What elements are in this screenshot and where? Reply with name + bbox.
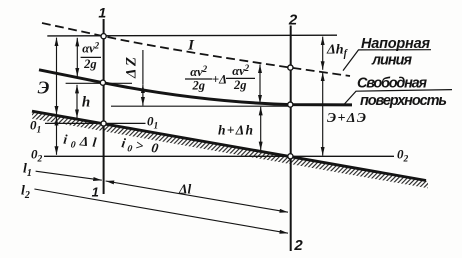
horizontal energy reference line <box>47 34 337 37</box>
channel bottom hatching <box>32 111 428 188</box>
fraction bar b section 2 <box>226 77 255 79</box>
svg-text:Δl: Δl <box>178 182 191 197</box>
measure depth h <box>76 85 78 118</box>
dimension line l2 <box>34 189 288 233</box>
svg-text:I: I <box>187 38 195 54</box>
fraction bar a section 2 <box>185 78 212 80</box>
node at bottom section 1 <box>101 121 106 126</box>
svg-text:2g: 2g <box>233 78 247 92</box>
measure dZ extension <box>142 50 144 84</box>
node at energy line section 2 <box>288 65 293 70</box>
datum line 0-1 <box>45 122 146 124</box>
measure velocity head section 1 <box>76 38 78 77</box>
measure dZ <box>142 85 144 106</box>
free-surface level line at section 2 <box>111 105 290 107</box>
svg-text:линия: линия <box>371 53 412 69</box>
fraction bar section 1 <box>81 56 101 58</box>
node at free surface section 1 <box>100 80 105 85</box>
svg-text:1: 1 <box>92 184 99 199</box>
measure i0*dl <box>56 117 58 155</box>
node at free surface section 2 <box>288 102 293 107</box>
svg-text:2g: 2g <box>191 79 205 93</box>
datum line 0-2 <box>44 155 394 157</box>
free-surface level tick at section 1 <box>66 82 132 84</box>
dimension line dl <box>106 181 288 212</box>
measure velocity head section 2 <box>259 65 261 104</box>
node at energy line section 1 <box>101 34 106 39</box>
measure E (specific energy section 1) <box>56 38 58 115</box>
channel bottom line <box>32 111 426 180</box>
svg-text:2g: 2g <box>83 57 97 71</box>
svg-text:h+Δh: h+Δh <box>218 123 253 138</box>
svg-text:1: 1 <box>98 5 106 21</box>
measure dh_f head loss <box>322 37 324 70</box>
svg-text:Свободная: Свободная <box>357 75 427 91</box>
free surface curve <box>39 70 352 105</box>
svg-text:2: 2 <box>288 12 298 29</box>
node at bottom section 2 <box>288 154 293 159</box>
leader for free surface label <box>344 90 453 105</box>
svg-text:Напорная: Напорная <box>361 36 430 52</box>
dashed energy grade line I <box>42 23 350 76</box>
svg-text:+Δ: +Δ <box>212 73 227 87</box>
measure h+dh <box>260 107 262 150</box>
svg-text:поверхность: поверхность <box>360 93 447 109</box>
dimension line l1 <box>36 171 102 180</box>
svg-text:h: h <box>82 95 90 111</box>
svg-text:2: 2 <box>293 237 303 254</box>
measure E+dE <box>322 73 324 156</box>
section line 1 <box>103 19 105 194</box>
svg-text:Э+ΔЭ: Э+ΔЭ <box>327 111 366 126</box>
section line 2 <box>290 26 292 252</box>
svg-text:Э: Э <box>38 78 50 98</box>
leader for pressure line label <box>343 50 431 71</box>
